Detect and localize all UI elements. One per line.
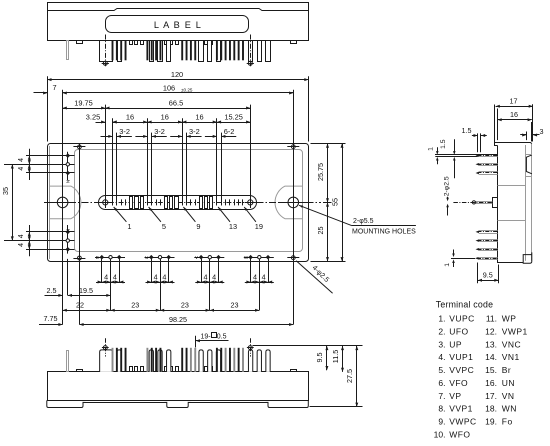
svg-text:5.: 5. xyxy=(438,365,445,375)
top view: module body outline xyxy=(48,3,309,41)
plan view: P-side pin markers (bottom group) xyxy=(26,231,75,233)
dimension 3.25 xyxy=(96,122,106,124)
dimension 22 xyxy=(63,310,111,312)
svg-text:4: 4 xyxy=(154,273,158,282)
top view: guide pin centerlines and tips xyxy=(105,35,107,67)
svg-text:VNC: VNC xyxy=(502,339,521,349)
svg-text:16: 16 xyxy=(126,112,134,121)
dimension 11.5 (front) xyxy=(342,346,344,372)
side view: molded body outline xyxy=(495,143,532,146)
svg-text:7.: 7. xyxy=(438,391,445,401)
dimension 55 xyxy=(342,144,344,262)
svg-text:VVPC: VVPC xyxy=(449,365,474,375)
dimension 19.75 xyxy=(63,108,106,110)
front view: guide pin centerlines and tip circles xyxy=(105,338,107,356)
extension lines: first pins of each group (16 dims) xyxy=(112,118,114,205)
svg-text:9.5: 9.5 xyxy=(315,353,324,363)
front view: power terminal pins xyxy=(117,350,121,372)
dimension 2.5 xyxy=(45,295,63,297)
svg-text:19.: 19. xyxy=(485,417,497,427)
extension lines right of plan view xyxy=(311,143,346,145)
plan view: control pin ticks 1-19 xyxy=(112,199,114,205)
front view: bottom feet and baseplate outline xyxy=(47,400,309,407)
front view: merged B-group pin outline around guide pin xyxy=(100,350,113,372)
svg-text:6.: 6. xyxy=(438,378,445,388)
svg-text:11.5: 11.5 xyxy=(331,350,340,363)
svg-text:27.5: 27.5 xyxy=(345,369,354,383)
svg-text:2-φ2.5: 2-φ2.5 xyxy=(444,176,451,196)
dimension 1 (bottom pin, side) xyxy=(453,250,455,255)
svg-text:1.5: 1.5 xyxy=(440,139,447,149)
side view: baseplate foot xyxy=(523,252,532,263)
dimension 1.5 horizontal (side pin tips) xyxy=(477,133,479,152)
svg-text:4: 4 xyxy=(162,273,166,282)
svg-text:15.: 15. xyxy=(485,365,497,375)
mounting holes callout leader xyxy=(299,205,352,225)
side view: extension lines for 17/16/3 dims xyxy=(497,109,499,141)
side view: molded body right face line xyxy=(525,145,527,261)
side view: baseplate groove notch xyxy=(526,155,532,174)
svg-text:7: 7 xyxy=(52,83,56,92)
plan view: N-side pin column line xyxy=(67,152,69,181)
front view: control pins xyxy=(112,348,114,372)
plan view: right mounting ear keyhole xyxy=(275,186,302,219)
extension line: left boss column xyxy=(79,144,81,325)
svg-text:WP: WP xyxy=(502,314,517,324)
svg-text:19-: 19- xyxy=(201,333,212,340)
svg-text:11.: 11. xyxy=(486,314,497,324)
svg-text:VWP1: VWP1 xyxy=(502,326,528,336)
plan view: left mounting hole xyxy=(57,197,68,208)
svg-text:B: B xyxy=(96,255,99,260)
plan view: left chamfer edge line xyxy=(49,146,51,259)
dimension 16 (x3) xyxy=(113,122,148,124)
extension lines: bottom pin groups down to dims xyxy=(110,259,112,310)
plan view: guide pin holes xyxy=(103,200,108,205)
svg-text:16: 16 xyxy=(510,110,518,119)
top view: merged B-group pin outline around guide pin xyxy=(100,41,113,62)
corner holes callout 4-phi2.5 xyxy=(296,261,332,294)
svg-text:Fo: Fo xyxy=(502,417,513,427)
dimension 120 xyxy=(47,79,308,81)
dimension 15.25 xyxy=(217,122,250,124)
svg-text:4: 4 xyxy=(104,273,108,282)
svg-text:6-2: 6-2 xyxy=(224,127,235,136)
svg-text:19.5: 19.5 xyxy=(79,286,93,295)
dimension 35 between middle side pins xyxy=(12,164,14,240)
svg-text:VN1: VN1 xyxy=(502,352,520,362)
svg-text:VUP1: VUP1 xyxy=(449,352,473,362)
svg-text:16: 16 xyxy=(195,112,203,121)
plan view: right mounting hole xyxy=(288,197,299,208)
svg-text:17: 17 xyxy=(510,97,518,106)
svg-text:4-φ2.5: 4-φ2.5 xyxy=(311,264,331,284)
svg-text:16: 16 xyxy=(161,112,169,121)
svg-text:UFO: UFO xyxy=(449,326,468,336)
svg-text:19: 19 xyxy=(255,222,263,231)
svg-text:55: 55 xyxy=(330,198,339,206)
svg-text:3-2: 3-2 xyxy=(119,127,130,136)
dimension 98.25 xyxy=(79,324,293,326)
front view: side pin xyxy=(67,351,69,372)
svg-text:4: 4 xyxy=(262,273,266,282)
svg-text:23: 23 xyxy=(231,301,239,310)
dimension 3 (side) xyxy=(520,134,526,136)
svg-text:VUPC: VUPC xyxy=(449,314,474,324)
extension lines: second pins of each group (3-2 dims) xyxy=(116,133,118,206)
svg-text:10.: 10. xyxy=(434,429,446,439)
svg-text:VVP1: VVP1 xyxy=(449,404,473,414)
svg-text:Br: Br xyxy=(502,365,511,375)
svg-text:12.: 12. xyxy=(485,326,497,336)
extension lines: mounting hole centers xyxy=(62,90,64,325)
plan view: bottom power pin markers B/U/V/W groups xyxy=(95,257,125,259)
side view: baseplate outer edge xyxy=(531,144,533,261)
svg-text:WFO: WFO xyxy=(449,429,470,439)
svg-text:25: 25 xyxy=(316,227,325,235)
svg-text:98.25: 98.25 xyxy=(169,315,187,324)
svg-text:2.5: 2.5 xyxy=(47,286,57,295)
svg-text:22: 22 xyxy=(76,301,84,310)
svg-text:106: 106 xyxy=(163,83,175,92)
top view: case step line xyxy=(47,9,308,11)
front view: module body xyxy=(48,372,309,401)
side view: N pins (top group) xyxy=(479,154,498,156)
dimension 27.5 (front) xyxy=(356,346,358,407)
plan view: corner boss holes 4-phi2.5 xyxy=(78,145,82,149)
svg-text:WN: WN xyxy=(502,404,517,414)
svg-text:9: 9 xyxy=(196,222,200,231)
svg-text:19.75: 19.75 xyxy=(74,98,93,107)
svg-text:N: N xyxy=(66,180,71,183)
side view: corner boss stub (top) xyxy=(494,105,496,143)
svg-text:9.5: 9.5 xyxy=(483,271,493,280)
top view: label plate xyxy=(106,16,249,33)
top view: corner boss stubs xyxy=(77,41,83,44)
svg-text:8.: 8. xyxy=(438,404,445,414)
plan view: outer case outline xyxy=(48,144,309,262)
svg-text:4: 4 xyxy=(18,167,25,171)
svg-text:1: 1 xyxy=(127,222,131,231)
extension lines: guide pins up to 66.5 dim xyxy=(105,105,107,208)
dimension 16 (side) xyxy=(498,119,532,121)
svg-text:3-2: 3-2 xyxy=(154,127,165,136)
dimensions 3-2 pitch (x3) and 6-2 xyxy=(101,136,113,138)
svg-text:4: 4 xyxy=(18,234,25,238)
svg-text:UP: UP xyxy=(449,339,462,349)
extension lines: body edges up to 120 dim xyxy=(47,76,49,141)
svg-text:13.: 13. xyxy=(485,339,497,349)
plan view: terminal slot outline xyxy=(99,196,257,210)
svg-text:W: W xyxy=(244,255,249,260)
svg-text:VP: VP xyxy=(449,391,461,401)
top view: power terminal pins xyxy=(118,41,122,62)
svg-text:4: 4 xyxy=(212,273,216,282)
svg-text:23: 23 xyxy=(131,301,139,310)
callout 2-phi2.5 guide pin xyxy=(447,197,449,199)
svg-text:15.25: 15.25 xyxy=(224,112,243,121)
dimension 66.5 xyxy=(105,108,250,110)
dimension 19.5 xyxy=(68,295,111,297)
dimension 4 4 (bottom-left group) xyxy=(29,225,31,256)
plan view: horizontal centerline xyxy=(44,202,99,204)
extension line: side pin column down to 19.5 dim xyxy=(67,259,69,296)
front view: bottom reference line xyxy=(310,406,363,408)
svg-text:4: 4 xyxy=(253,273,257,282)
svg-text:1.5: 1.5 xyxy=(462,126,472,135)
plan view: N-side pin markers (top group) xyxy=(26,155,75,157)
front view: 19-sq0.5 pin callout xyxy=(195,336,197,348)
side view: pin edge reference lines (1mm tip) xyxy=(435,154,497,156)
plan view: slot centerline xyxy=(99,202,257,204)
front view: rect-pin stubs xyxy=(130,367,133,372)
svg-text:3: 3 xyxy=(540,127,544,136)
dimension 1.5 vertical (pin thickness) xyxy=(454,139,456,152)
svg-text:1: 1 xyxy=(444,263,451,267)
side view: guide pin 2-phi2.5 xyxy=(453,202,492,204)
svg-text:9.: 9. xyxy=(438,417,445,427)
dimension 7.75 xyxy=(39,324,63,326)
dimension 17 (side) xyxy=(496,106,533,108)
svg-text:16.: 16. xyxy=(485,378,497,388)
svg-text:120: 120 xyxy=(171,70,183,79)
svg-text:3.25: 3.25 xyxy=(86,112,100,121)
side view: guide pin boss xyxy=(493,198,498,208)
svg-text:23: 23 xyxy=(181,301,189,310)
svg-text:MOUNTING HOLES: MOUNTING HOLES xyxy=(352,229,416,236)
dimension 4 4 rows under bottom pin groups xyxy=(96,282,125,284)
svg-text:2.: 2. xyxy=(438,326,445,336)
svg-text:17.: 17. xyxy=(485,391,497,401)
svg-text:0.5: 0.5 xyxy=(217,333,227,340)
svg-text:2-φ5.5: 2-φ5.5 xyxy=(353,218,374,225)
top view: control pins xyxy=(112,41,114,61)
dimension 9.5 (front) xyxy=(326,346,328,370)
side view: P pins (bottom group) xyxy=(479,230,498,232)
svg-text:UN: UN xyxy=(502,378,515,388)
dimension 25 xyxy=(327,202,329,261)
svg-text:5: 5 xyxy=(162,222,166,231)
svg-text:1.: 1. xyxy=(438,314,445,324)
top view: side pin xyxy=(67,41,69,60)
svg-text:VFO: VFO xyxy=(449,378,468,388)
dimension 1 (pin tip thickness) xyxy=(437,147,439,152)
svg-text:4: 4 xyxy=(203,273,207,282)
svg-text:14.: 14. xyxy=(485,352,497,362)
svg-text:13: 13 xyxy=(229,222,237,231)
dimension 9.5 (side) xyxy=(477,263,479,284)
plan view: left mounting ear keyhole xyxy=(50,186,81,219)
plan view: inner top-surface outline xyxy=(75,150,303,252)
svg-text:4: 4 xyxy=(113,273,117,282)
dimension 4 4 (top-left group) xyxy=(29,149,31,180)
dimension 106 +-0.25 xyxy=(63,92,294,94)
svg-text:U: U xyxy=(145,255,148,260)
svg-text:4.: 4. xyxy=(438,352,445,362)
svg-text:7.75: 7.75 xyxy=(44,314,58,323)
svg-text:66.5: 66.5 xyxy=(169,98,183,107)
svg-text:VN: VN xyxy=(502,391,515,401)
top view: rect-pin stubs xyxy=(130,41,133,45)
side view: bottom power pin row xyxy=(478,257,497,259)
svg-text:25.75: 25.75 xyxy=(316,163,325,181)
svg-text:3.: 3. xyxy=(438,339,445,349)
svg-text:18.: 18. xyxy=(485,404,497,414)
svg-text:±0.25: ±0.25 xyxy=(181,87,193,92)
svg-text:35: 35 xyxy=(1,187,10,195)
svg-text:4: 4 xyxy=(18,243,25,247)
dimension 7 xyxy=(34,92,48,94)
front view: corner boss stubs xyxy=(77,370,83,372)
svg-text:4: 4 xyxy=(18,158,25,162)
plan view: pin number leaders xyxy=(114,207,127,222)
front view: pin-tip reference line xyxy=(253,345,363,347)
svg-text:1: 1 xyxy=(428,147,435,151)
plan view: power rect pins xyxy=(130,197,133,209)
svg-text:3-2: 3-2 xyxy=(189,127,200,136)
side view: internal parting lines xyxy=(498,185,526,187)
svg-text:L A B E L: L A B E L xyxy=(154,20,202,30)
dimension 23 (x3) xyxy=(111,310,161,312)
svg-text:Terminal code: Terminal code xyxy=(436,300,493,310)
svg-text:N: N xyxy=(66,229,71,232)
svg-text:VWPC: VWPC xyxy=(449,417,476,427)
dimension 25.75 xyxy=(327,144,329,203)
